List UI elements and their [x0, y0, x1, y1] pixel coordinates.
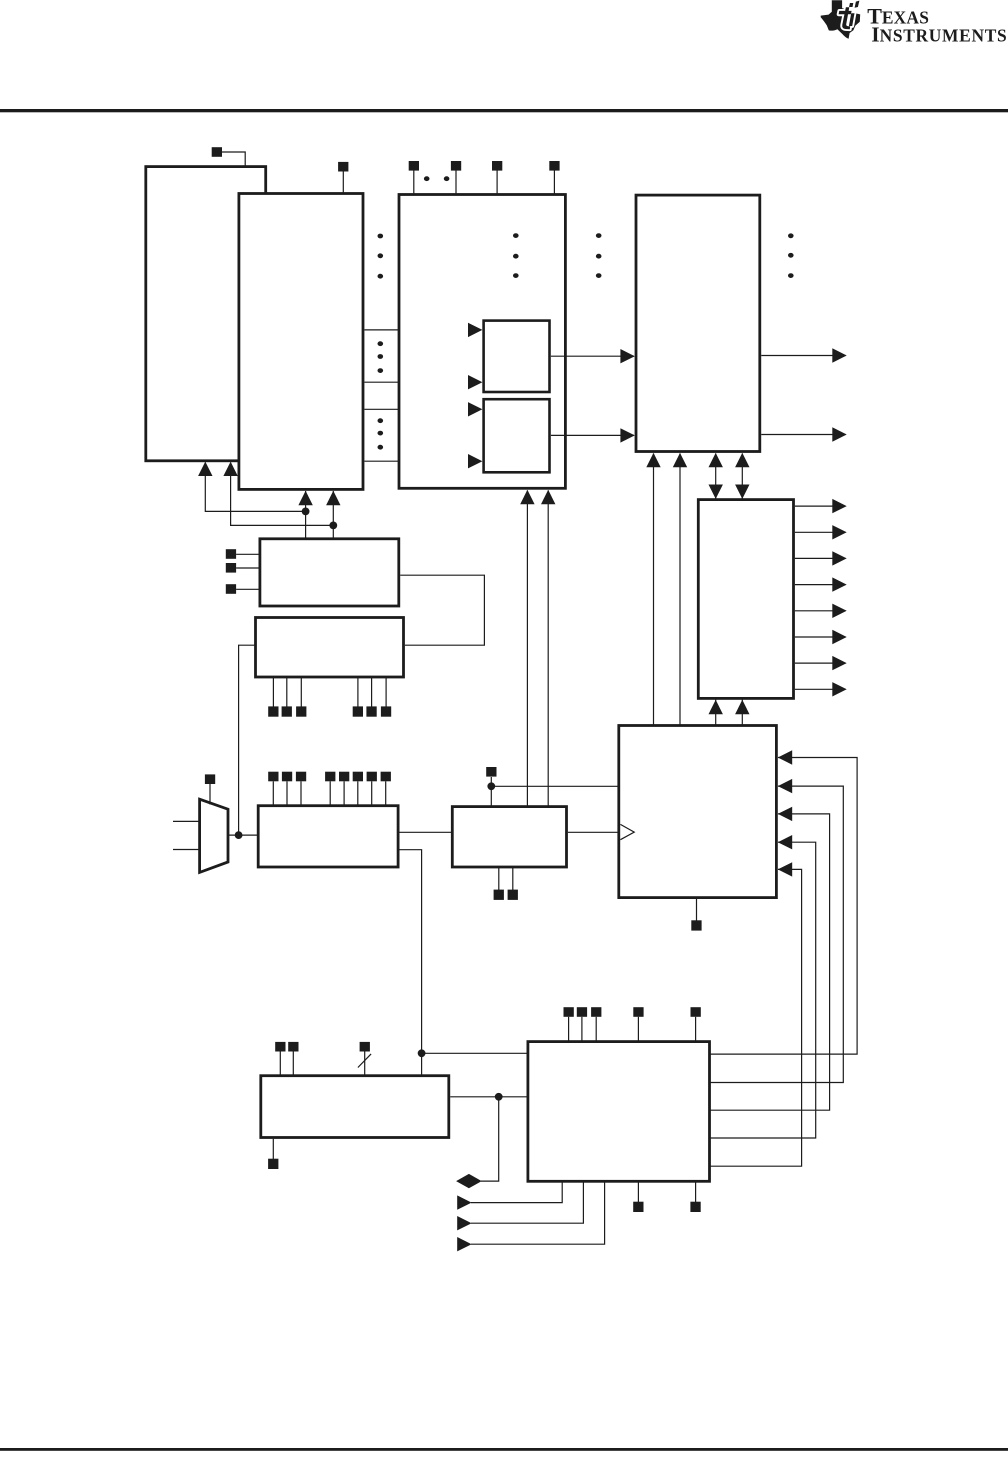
block K (lower-left wide block): [261, 1076, 449, 1138]
wire I top chain to pin: [490, 777, 492, 806]
wire B to C1 input 2: [364, 381, 481, 383]
arrow up into B bottom 1: [298, 491, 312, 505]
wire C2 output to D: [551, 434, 634, 436]
pin square below I 2: [508, 890, 518, 900]
wire D-E bidirectional 2: [741, 454, 743, 499]
wire G bottom stub 3: [300, 678, 302, 707]
arrow into D input 1: [620, 349, 634, 363]
arrow E output 5: [832, 604, 846, 618]
block C (large center block): [399, 195, 565, 489]
junction dot K output: [495, 1093, 503, 1101]
pin square P9 left of F: [226, 584, 236, 594]
wire J right input 3 from L: [711, 814, 830, 1110]
mux input wire 2: [173, 849, 200, 851]
block A (top-left tall block): [146, 167, 266, 461]
wire mux select stub: [209, 784, 211, 805]
arrow external input 2: [457, 1216, 471, 1230]
junction dot F/B wire 2: [329, 522, 337, 530]
pin squares above L: [564, 1007, 701, 1017]
wire G bottom stub 6: [385, 678, 387, 707]
wire E output 5: [795, 610, 846, 612]
wire B to C2 input 1: [364, 408, 481, 410]
pin square below L 1: [633, 1202, 643, 1212]
wire H to I: [399, 831, 452, 833]
pin square P4 above C: [451, 161, 461, 171]
arrow external input 3: [457, 1237, 471, 1251]
ellipsis dots column between B and C (middle): [378, 341, 384, 373]
block G (register block 2): [256, 618, 404, 678]
arrow E output 6: [832, 630, 846, 644]
footer rule: [0, 1448, 1008, 1451]
wire K output branch down to diamond: [481, 1097, 499, 1181]
wire L bottom elbow 1: [471, 1183, 562, 1203]
wire B to C1 input 1: [364, 329, 481, 331]
wire K top stub 1: [279, 1052, 281, 1076]
wire J right input 1 from L: [711, 758, 858, 1055]
wire L bottom stub 2: [695, 1183, 697, 1203]
arrow into C1 input 2: [468, 375, 482, 389]
wire P7 to F: [236, 553, 259, 555]
wire J to D vertical 2: [679, 454, 681, 725]
pin square P3 above C: [409, 161, 419, 171]
wire K bottom stub: [272, 1139, 274, 1159]
block D (right tall block): [636, 195, 760, 451]
wire G bottom stub 1: [272, 678, 274, 707]
arrow into J right 1: [778, 750, 792, 764]
pin square below G 2: [282, 706, 292, 716]
arrow up into E bottom 1: [709, 700, 723, 714]
wire mux output to H: [228, 834, 258, 836]
wire P1 to block A top: [222, 152, 245, 166]
wire A bottom input 2 elbow: [231, 463, 334, 526]
wire E output 1: [795, 505, 846, 507]
pin square below K: [268, 1159, 278, 1169]
wire J right input 4 from L: [711, 842, 816, 1138]
block H: [258, 806, 398, 867]
wire E to J vertical 2: [741, 700, 743, 725]
inner block C2: [484, 399, 550, 472]
mux (trapezoid): [200, 799, 228, 872]
wire E to J vertical 1: [715, 700, 717, 725]
wire E output 3: [795, 557, 846, 559]
arrow into J right 3: [778, 807, 792, 821]
pin square below G 5: [366, 706, 376, 716]
arrow up into A bottom 1: [198, 462, 212, 476]
wire G bottom stub 2: [286, 678, 288, 707]
wire L bottom stub 1: [637, 1183, 639, 1203]
wire K top stub 3 (bus): [364, 1052, 366, 1076]
TI logo wordmark: [867, 3, 1007, 46]
ellipsis dots between C and D: [596, 233, 602, 278]
wire J right input 5 from L: [711, 869, 802, 1166]
wire I to C bottom 1: [526, 491, 528, 806]
pin squares above H: [268, 772, 391, 782]
pin square below G 3: [296, 706, 306, 716]
arrow E output 1: [832, 499, 846, 513]
arrow into C1 input 1: [468, 323, 482, 337]
wire K top stub 2: [292, 1052, 294, 1076]
arrow D output 2: [832, 427, 846, 441]
wire P4 stub: [455, 171, 457, 195]
block B (second tall block, overlaps A): [239, 194, 363, 490]
wire J to D vertical 1: [653, 454, 655, 725]
arrow up into C bottom 2: [541, 490, 555, 504]
arrow external input 1: [457, 1195, 471, 1209]
block E (right mid block): [698, 500, 793, 699]
ellipsis dots inside C: [513, 233, 519, 278]
pin square P8 left of F: [226, 563, 236, 573]
arrow up into D bottom 3: [709, 453, 723, 467]
wire G bottom stub 5: [371, 678, 373, 707]
wire F output Z to G right: [400, 575, 484, 645]
pin square above mux: [205, 774, 215, 784]
wire A bottom input 1 elbow: [205, 463, 305, 512]
inner block C1: [484, 321, 550, 392]
wire E output 4: [795, 584, 846, 586]
block J (control block): [619, 726, 777, 898]
wire P2 stub: [342, 172, 344, 194]
junction dot mux output: [235, 831, 243, 839]
arrow up into B bottom 2: [326, 491, 340, 505]
wire F to B vertical 1: [305, 491, 307, 538]
arrow into C2 input 2: [468, 454, 482, 468]
arrow into C2 input 1: [468, 402, 482, 416]
arrow up into A bottom 2: [223, 462, 237, 476]
pin square P2 above block B: [338, 162, 348, 172]
wire P3 stub: [413, 171, 415, 195]
TI logo Texas map: [821, 0, 861, 39]
wire P8 to F: [236, 567, 259, 569]
junction dot I top: [487, 782, 495, 790]
pin square P5 above C: [492, 161, 502, 171]
arrow E output 7: [832, 656, 846, 670]
ellipsis dots column between B and C (lower): [378, 418, 384, 449]
arrow E output 3: [832, 551, 846, 565]
pin square P7 left of F: [226, 549, 236, 559]
wire L bottom elbow 3: [471, 1183, 605, 1245]
arrow into D input 2: [620, 428, 634, 442]
ellipsis dots column between B and C (upper): [378, 234, 384, 279]
wire I bottom stub 1: [498, 868, 500, 890]
wire E output 7: [795, 662, 846, 664]
bus slash on K stub: [358, 1054, 371, 1068]
arrow up into D bottom 4: [735, 453, 749, 467]
wires H top stubs: [273, 781, 385, 805]
diamond arrow (bidirectional pin): [456, 1174, 482, 1188]
arrow into J right 2: [778, 779, 792, 793]
arrow up into C bottom 1: [520, 490, 534, 504]
wire D output 2: [761, 434, 845, 436]
wire C1 output to D: [551, 355, 634, 357]
block I: [452, 807, 566, 867]
ellipsis dots right of D: [788, 233, 794, 278]
wire E output 2: [795, 531, 846, 533]
wire I top to J left input: [491, 785, 618, 787]
wire J bottom stub: [696, 899, 698, 921]
arrow D output 1: [832, 348, 846, 362]
wire E output 6: [795, 636, 846, 638]
arrow down into E top 1: [709, 485, 723, 499]
wire I bottom stub 2: [512, 868, 514, 890]
block F (register block): [260, 539, 399, 606]
arrow E output 2: [832, 525, 846, 539]
arrow E output 4: [832, 577, 846, 591]
wire D-E bidirectional 1: [715, 454, 717, 499]
pin square below L 2: [690, 1202, 700, 1212]
wire K output to L: [450, 1096, 527, 1098]
wire H to K/L chain: [399, 850, 422, 1075]
wire D output 1: [761, 355, 845, 357]
wire I output to J clock: [568, 831, 618, 833]
wire P5 stub: [496, 171, 498, 195]
arrow into J right 4: [778, 835, 792, 849]
clock wedge inside J: [620, 824, 634, 839]
wire B to C2 input 2: [364, 460, 481, 462]
wire P6 stub: [553, 171, 555, 195]
pin square below J: [691, 920, 701, 930]
wire E output 8: [795, 688, 846, 690]
arrow up into D bottom 2: [673, 453, 687, 467]
arrow up into D bottom 1: [646, 453, 660, 467]
header rule: [0, 109, 1008, 112]
pin square above K 3: [360, 1042, 370, 1052]
pin square above K 1: [275, 1042, 285, 1052]
wire L bottom elbow 2: [471, 1183, 583, 1224]
wire I to C bottom 2: [547, 491, 549, 806]
mux input wire 1: [173, 820, 200, 822]
svg-text:INSTRUMENTS: INSTRUMENTS: [871, 23, 1007, 47]
arrow into J right 5: [778, 862, 792, 876]
junction dot chain: [418, 1049, 426, 1057]
pin square on I top wire: [486, 767, 496, 777]
pin square below G 1: [268, 706, 278, 716]
arrow down into E top 2: [735, 485, 749, 499]
wire G left elbow down to mux junction: [239, 645, 255, 834]
pin square below G 6: [381, 706, 391, 716]
wire P9 to F: [236, 588, 259, 590]
arrow E output 8: [832, 682, 846, 696]
wires L top stubs: [569, 1017, 696, 1041]
wire G bottom stub 4: [357, 678, 359, 707]
dots between P3 and P4: [424, 176, 450, 181]
pin square P1 (top-left): [212, 147, 222, 157]
block L (lower-right big block): [528, 1042, 710, 1182]
pin square below G 4: [353, 706, 363, 716]
wire chain branch to L: [422, 1052, 527, 1054]
junction dot F/B wire 1: [302, 508, 310, 516]
pin square P6 above C: [549, 161, 559, 171]
wire F to B vertical 2: [332, 491, 334, 538]
pin square above K 2: [288, 1042, 298, 1052]
wire J right input 2 from L: [711, 786, 844, 1082]
pin square below I 1: [494, 890, 504, 900]
arrow up into E bottom 2: [735, 700, 749, 714]
